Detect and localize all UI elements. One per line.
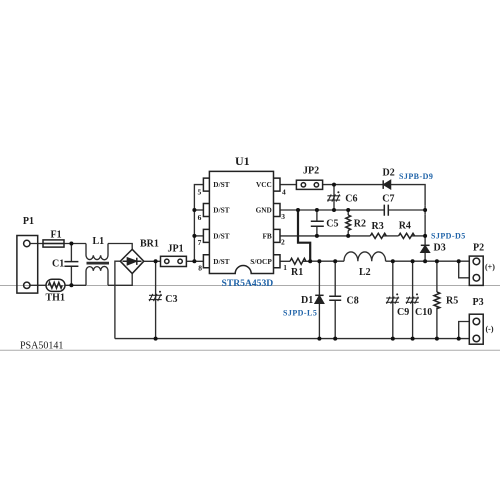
svg-text:P2: P2 xyxy=(473,243,484,254)
svg-text:FB: FB xyxy=(262,232,271,241)
svg-text:JP2: JP2 xyxy=(303,166,319,177)
svg-text:4: 4 xyxy=(282,188,286,197)
svg-text:GND: GND xyxy=(256,206,272,215)
svg-text:C8: C8 xyxy=(347,296,359,307)
svg-text:D/ST: D/ST xyxy=(213,180,229,189)
svg-text:1: 1 xyxy=(283,263,287,272)
svg-text:VCC: VCC xyxy=(256,180,272,189)
svg-text:L1: L1 xyxy=(93,236,105,247)
svg-text:L2: L2 xyxy=(359,267,371,278)
svg-text:C5: C5 xyxy=(326,218,338,229)
svg-text:D3: D3 xyxy=(434,243,446,254)
svg-text:D1: D1 xyxy=(301,295,313,306)
svg-text:8: 8 xyxy=(198,263,202,272)
svg-text:R2: R2 xyxy=(354,219,366,230)
svg-text:D/ST: D/ST xyxy=(213,232,229,241)
svg-text:3: 3 xyxy=(281,212,285,221)
svg-text:SJPB-D9: SJPB-D9 xyxy=(399,172,433,181)
svg-text:C6: C6 xyxy=(345,193,357,204)
svg-text:SJPD-L5: SJPD-L5 xyxy=(283,309,317,318)
svg-text:2: 2 xyxy=(281,237,285,246)
svg-text:C1: C1 xyxy=(52,259,64,270)
svg-text:C3: C3 xyxy=(165,294,177,305)
svg-text:C9: C9 xyxy=(397,307,409,318)
svg-text:STR5A453D: STR5A453D xyxy=(222,278,274,289)
svg-text:5: 5 xyxy=(198,187,202,196)
svg-text:R1: R1 xyxy=(291,267,303,278)
svg-text:R4: R4 xyxy=(399,220,411,231)
svg-text:P1: P1 xyxy=(23,216,34,227)
svg-text:P3: P3 xyxy=(473,297,484,308)
svg-text:S/OCP: S/OCP xyxy=(250,257,272,266)
svg-text:JP1: JP1 xyxy=(168,244,184,255)
svg-text:PSA50141: PSA50141 xyxy=(20,341,63,352)
svg-text:TH1: TH1 xyxy=(46,293,65,304)
svg-text:F1: F1 xyxy=(51,230,62,241)
svg-text:SJPD-D5: SJPD-D5 xyxy=(431,232,466,241)
svg-text:C7: C7 xyxy=(382,193,394,204)
svg-text:R3: R3 xyxy=(372,221,384,232)
svg-text:7: 7 xyxy=(198,238,202,247)
svg-text:D/ST: D/ST xyxy=(213,206,229,215)
svg-text:D/ST: D/ST xyxy=(213,257,229,266)
svg-text:D2: D2 xyxy=(383,168,395,179)
svg-text:(+): (+) xyxy=(485,263,495,272)
svg-text:(-): (-) xyxy=(486,324,494,333)
svg-text:BR1: BR1 xyxy=(140,239,159,250)
svg-text:R5: R5 xyxy=(446,296,458,307)
svg-text:6: 6 xyxy=(198,213,202,222)
svg-text:U1: U1 xyxy=(235,154,250,168)
svg-text:C10: C10 xyxy=(415,307,432,318)
